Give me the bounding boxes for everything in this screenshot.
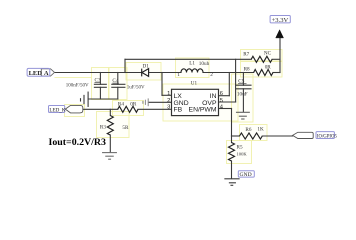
- svg-text:0R: 0R: [130, 102, 137, 108]
- svg-text:U1: U1: [191, 80, 198, 86]
- svg-text:5R: 5R: [122, 125, 129, 131]
- svg-text:D1: D1: [143, 63, 150, 69]
- svg-text:GND: GND: [240, 172, 252, 178]
- svg-text:LED_K: LED_K: [49, 107, 65, 113]
- svg-text:1uF/50V: 1uF/50V: [127, 86, 145, 91]
- svg-text:L1: L1: [189, 60, 195, 66]
- svg-text:IN: IN: [210, 93, 217, 100]
- svg-text:1K: 1K: [257, 127, 264, 133]
- svg-text:10uF: 10uF: [237, 92, 248, 98]
- svg-text:2: 2: [167, 98, 170, 104]
- svg-text:R7: R7: [243, 52, 249, 58]
- svg-text:0R: 0R: [265, 65, 272, 71]
- svg-text:2: 2: [210, 72, 213, 78]
- svg-text:R6: R6: [245, 127, 251, 133]
- svg-text:5: 5: [220, 98, 223, 104]
- svg-text:10uh: 10uh: [199, 61, 210, 67]
- svg-text:EN/PWM: EN/PWM: [189, 106, 217, 113]
- svg-text:R8: R8: [244, 66, 250, 72]
- svg-text:LED: LED: [29, 70, 43, 77]
- svg-text:1: 1: [177, 72, 180, 78]
- svg-text:Iout=0.2V/R3: Iout=0.2V/R3: [49, 137, 107, 148]
- svg-text:100nF/50V: 100nF/50V: [66, 83, 89, 88]
- svg-text:R5: R5: [237, 144, 243, 150]
- svg-text:R3: R3: [100, 125, 106, 131]
- svg-text:IO/GPIO5: IO/GPIO5: [317, 134, 338, 139]
- svg-text:A: A: [44, 70, 49, 77]
- svg-text:6: 6: [220, 91, 223, 97]
- svg-text:FB: FB: [174, 106, 183, 113]
- svg-text:NC: NC: [264, 50, 272, 56]
- svg-text:100K: 100K: [237, 152, 248, 157]
- svg-text:1: 1: [167, 91, 170, 97]
- svg-text:3: 3: [167, 104, 170, 110]
- svg-text:R4: R4: [118, 102, 124, 108]
- svg-text:+3.3V: +3.3V: [272, 17, 289, 24]
- svg-text:LX: LX: [174, 93, 183, 100]
